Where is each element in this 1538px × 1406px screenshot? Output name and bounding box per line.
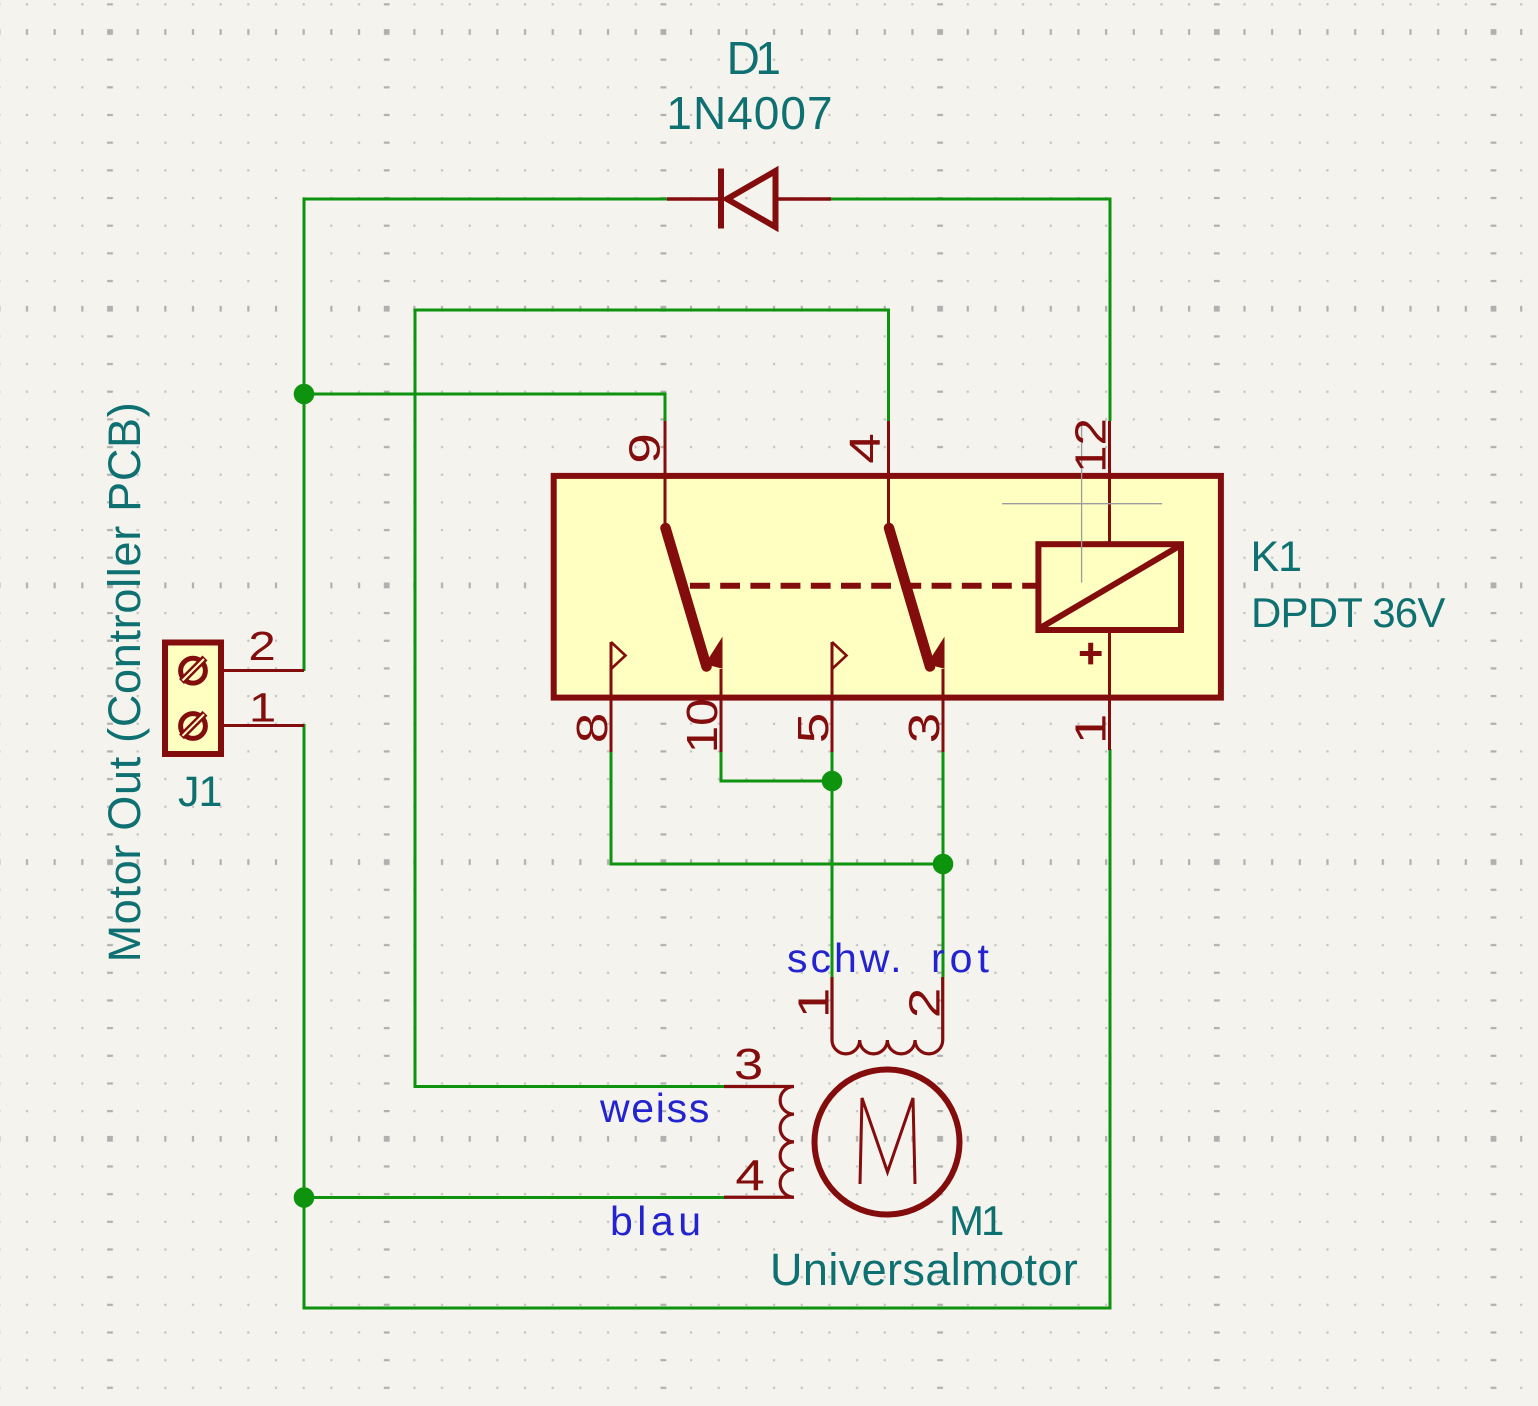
wire relay pin5 down to motor pin1 (831, 752, 834, 977)
svg-text:Motor Out (Controller PCB): Motor Out (Controller PCB) (99, 402, 150, 963)
relay pin 9 stub (664, 421, 667, 527)
relay pin 5 stub (831, 642, 834, 752)
diode D1 symbol (718, 169, 724, 229)
J1 screw terminal 2 (181, 658, 206, 683)
relay mechanical link dashed (690, 583, 1038, 589)
svg-text:8: 8 (567, 713, 616, 744)
svg-text:3: 3 (899, 713, 948, 744)
relay K1 body (554, 476, 1221, 698)
J1 screw terminal 1 (181, 714, 206, 739)
svg-text:1: 1 (789, 988, 838, 1019)
relay coil (1038, 544, 1181, 630)
svg-text:blau: blau (610, 1198, 706, 1244)
wire net top-left: J1 pin2 up to diode anode (304, 199, 668, 671)
junction at (304,1197) (294, 1187, 315, 1208)
svg-text:9: 9 (620, 433, 669, 464)
connector J1 body (165, 643, 221, 755)
relay pin 8 stub (610, 642, 613, 752)
relay pin 4 stub (887, 421, 890, 527)
svg-text:1: 1 (1066, 714, 1115, 745)
svg-text:J1: J1 (178, 768, 221, 816)
diode D1 leads (667, 197, 831, 200)
relay pin 10 stub (720, 669, 723, 752)
wire relay pin8 to junction (611, 752, 943, 864)
J1 pin 1 stub (224, 724, 304, 727)
wire net bottom loop: J1 pin1 to relay pin1 (304, 724, 1110, 1308)
svg-text:rot: rot (931, 935, 994, 981)
relay NO contact arrow pin 3 (929, 640, 944, 668)
svg-text:2: 2 (900, 988, 949, 1019)
wire branch to motor pin4 (304, 1196, 724, 1199)
wire net relay pin4 to motor pin3 (415, 310, 889, 1087)
wire relay pin10 to junction (721, 752, 832, 781)
coil polarity plus (1080, 643, 1102, 665)
svg-text:5: 5 (788, 713, 837, 744)
relay NC contact pin 8 (611, 642, 626, 669)
svg-text:1N4007: 1N4007 (666, 87, 833, 139)
relay switch arm pole 1 (666, 528, 707, 667)
svg-text:schw.: schw. (787, 935, 905, 981)
J1 pin 2 stub (224, 669, 304, 672)
cursor crosshair (1002, 424, 1162, 583)
motor M1 circle (815, 1070, 960, 1215)
relay pin 1 stub (1108, 630, 1111, 750)
relay switch arm pole 2 (889, 528, 930, 667)
relay NO contact arrow pin 10 (707, 640, 722, 668)
svg-text:12: 12 (1066, 418, 1115, 473)
junction at (832,781) (822, 771, 843, 792)
svg-text:3: 3 (734, 1040, 763, 1089)
junction at (943,864) (933, 854, 954, 875)
svg-text:2: 2 (248, 623, 275, 669)
relay pin 12 stub (1108, 421, 1111, 544)
motor M1 field winding left (pins 3-4) (724, 1087, 794, 1198)
svg-text:10: 10 (677, 698, 726, 753)
motor M letter (860, 1098, 915, 1184)
wire branch to relay pin9 (304, 394, 665, 421)
relay pin 3 stub (942, 669, 945, 752)
motor M1 field winding top (pins 1-2) (832, 977, 943, 1054)
svg-text:Universalmotor: Universalmotor (770, 1244, 1078, 1295)
svg-text:1: 1 (249, 684, 276, 730)
svg-text:weiss: weiss (599, 1085, 711, 1131)
svg-text:4: 4 (735, 1152, 764, 1201)
wire relay pin3 down to motor pin2 (942, 752, 945, 977)
relay NC contact pin 5 (832, 642, 847, 669)
wire net top-right: diode cathode to relay pin12 (830, 199, 1110, 421)
svg-text:DPDT 36V: DPDT 36V (1251, 589, 1445, 636)
junction at (304,394) (294, 384, 315, 405)
svg-text:K1: K1 (1251, 533, 1302, 581)
svg-text:4: 4 (840, 433, 889, 464)
svg-text:D1: D1 (727, 32, 780, 84)
svg-text:M1: M1 (949, 1197, 1003, 1244)
